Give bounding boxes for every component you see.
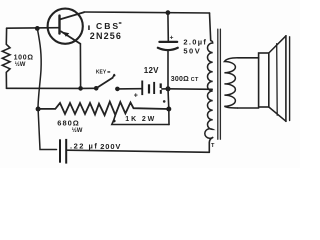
wire secondary to speaker <box>238 58 259 108</box>
switch KEY <box>94 69 120 91</box>
wire center tap <box>168 88 212 91</box>
node emitter junction dot <box>78 86 83 91</box>
transformer T1 primary lead <box>210 13 211 41</box>
svg-text:680Ω: 680Ω <box>57 119 80 128</box>
svg-text:KEY: KEY <box>96 69 107 75</box>
wire bias vertical (bowed) <box>37 29 41 109</box>
capacitor C2 .22uF <box>59 139 67 164</box>
node top rail junction dot <box>166 10 171 15</box>
label plus 2.0uf 50V <box>170 34 208 55</box>
svg-text:2.0µf: 2.0µf <box>183 37 207 46</box>
battery B1 12V <box>134 66 162 100</box>
node 1K junction dot <box>166 107 171 112</box>
capacitor C1 2uF plates <box>158 42 178 50</box>
resistor R1 100ohm <box>2 28 10 88</box>
svg-text:.22 µf: .22 µf <box>70 142 98 151</box>
wire emitter row <box>7 87 97 89</box>
wire bias node down to cap <box>38 109 56 150</box>
svg-text:2N256: 2N256 <box>90 31 122 41</box>
transformer T1 primary coil <box>205 41 213 139</box>
label 300ohm CT <box>171 76 199 83</box>
resistor R2 680ohm and R3 1K zigzag <box>38 102 169 116</box>
wire cap bottom to battery node to 1K node <box>168 51 169 125</box>
svg-text:200V: 200V <box>100 142 121 151</box>
svg-text:12V: 12V <box>144 66 159 75</box>
wire battery to node <box>162 88 168 90</box>
wire top rail collector to transformer <box>84 12 210 13</box>
transformer T1 core <box>218 29 221 139</box>
label CBS 2N256 <box>88 21 122 41</box>
wire base lead <box>7 27 59 30</box>
wire 1K tap loop <box>112 115 169 125</box>
svg-text:+: + <box>134 93 138 100</box>
label 100ohm halfW <box>14 54 34 68</box>
wire bottom rail <box>68 150 210 152</box>
svg-text:50V: 50V <box>183 47 201 56</box>
wire primary bottom lead <box>209 138 212 153</box>
svg-text:½W: ½W <box>15 61 26 68</box>
node base junction dot <box>35 26 40 31</box>
svg-text:1K 2W: 1K 2W <box>125 116 156 123</box>
label 680ohm halfW <box>57 119 83 135</box>
svg-text:T: T <box>211 143 215 149</box>
svg-text:CBS: CBS <box>96 21 120 31</box>
node bias junction dot <box>36 107 41 112</box>
svg-text:300Ω: 300Ω <box>171 76 189 83</box>
capacitor C1 2uF lead top <box>167 13 169 41</box>
svg-text:100Ω: 100Ω <box>14 54 34 61</box>
speaker SPK <box>259 36 290 122</box>
transformer T1 secondary coil <box>224 58 237 108</box>
svg-text:+: + <box>170 34 174 41</box>
svg-text:CT: CT <box>191 77 199 83</box>
wire key to battery <box>117 88 141 90</box>
node battery junction dot <box>166 86 171 91</box>
svg-text:½W: ½W <box>72 127 83 134</box>
transistor Q1 2N256 <box>48 9 84 89</box>
label .22uf 200V <box>70 142 121 151</box>
stray dot <box>163 100 166 103</box>
